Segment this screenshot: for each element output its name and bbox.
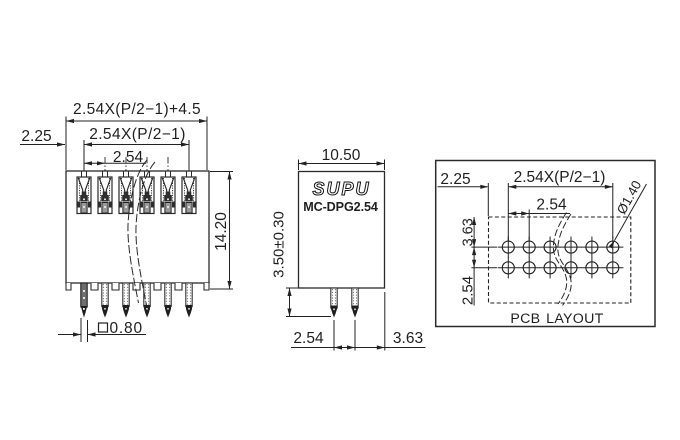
centerline pin 3 [125, 157, 127, 283]
dimension 2.54 (pcb vertical) [460, 276, 477, 305]
dimension 2.54X(P/2-1)+4.5 [66, 101, 207, 170]
slot 3 [119, 171, 133, 213]
connector body outline [66, 171, 209, 283]
svg-text:2.54: 2.54 [536, 197, 567, 214]
hole C3R2 [540, 257, 561, 278]
pcb dashed outline [489, 217, 631, 303]
svg-text:0.80: 0.80 [110, 320, 143, 337]
body foot between pins 2-3 [112, 283, 119, 290]
pin 1 solder tail (sectioned) [81, 283, 87, 318]
dimension 2.25 (left) [20, 128, 65, 147]
pin 3 solder tail [123, 283, 129, 318]
dimension 2.54 (pitch) [84, 149, 146, 166]
svg-text:3.63: 3.63 [393, 330, 423, 347]
hole C1R1 [498, 237, 519, 258]
svg-text:2.54X(P/2−1)+4.5: 2.54X(P/2−1)+4.5 [73, 101, 201, 118]
leader diameter 1.40 [609, 178, 647, 249]
hole C5R2 [581, 257, 602, 278]
hole C4R2 [560, 257, 581, 278]
dimension 2.25 (pcb) [438, 171, 489, 216]
hole C2R2 [519, 257, 540, 278]
pin 2 solder tail [102, 283, 108, 318]
hole C1R2 [498, 257, 519, 278]
body foot between pins 3-4 [133, 283, 140, 290]
svg-text:SUPU: SUPU [312, 179, 370, 199]
slot 5 [161, 171, 175, 213]
body foot between pins 1-2 [91, 283, 98, 290]
hole C6R2 [602, 257, 623, 278]
pin 4 solder tail [144, 283, 150, 318]
side pin 1 [331, 288, 337, 318]
hole C4R1 [560, 237, 581, 258]
svg-text:2.25: 2.25 [21, 128, 51, 145]
dimension 3.63 (pcb vertical) [460, 217, 476, 306]
centerline pin 1 [83, 140, 85, 283]
slot 2 [98, 171, 112, 213]
dimension 10.50 [299, 147, 385, 170]
dimension square 0.80 [58, 318, 146, 342]
pcb panel frame [436, 161, 655, 327]
break line curve pcb [553, 213, 571, 306]
svg-text:3.50±0.30: 3.50±0.30 [271, 211, 288, 278]
centerline pin 4 [146, 157, 148, 283]
row line extensions left [471, 246, 497, 248]
pin 6 solder tail [186, 283, 192, 318]
dimension 2.54X(P/2-1) [84, 126, 189, 170]
break line curve front view [128, 160, 155, 305]
svg-text:2.54X(P/2−1): 2.54X(P/2−1) [89, 126, 186, 143]
dimension 2.54 / 3.63 bottom [291, 292, 426, 351]
centerline pin 6 [188, 140, 190, 283]
svg-text:2.54: 2.54 [460, 276, 477, 305]
dimension 2.54X(P/2-1) (pcb) [508, 169, 613, 241]
body foot between pins 5-6 [175, 283, 182, 290]
dimension 3.50±0.30 [271, 211, 332, 316]
dimension 14.20 (right) [210, 172, 233, 290]
slot 6 [182, 171, 196, 213]
svg-text:PCB LAYOUT: PCB LAYOUT [510, 311, 603, 327]
hole C3R1 [540, 237, 561, 258]
body foot right corner [204, 283, 209, 290]
slot 1 [77, 171, 91, 213]
pin 5 solder tail [165, 283, 171, 318]
hole C5R1 [581, 237, 602, 258]
svg-text:2.54: 2.54 [293, 330, 324, 347]
side pin 2 [352, 288, 358, 318]
slot 4 [140, 171, 154, 213]
dimension 2.54 (pcb) [508, 197, 570, 242]
svg-text:10.50: 10.50 [322, 147, 361, 164]
centerline pin 5 [167, 157, 169, 283]
svg-text:2.54X(P/2−1): 2.54X(P/2−1) [514, 169, 606, 186]
svg-text:14.20: 14.20 [213, 212, 230, 251]
centerline pin 2 [104, 157, 106, 283]
hole C2R1 [519, 237, 540, 258]
svg-text:MC-DPG2.54: MC-DPG2.54 [303, 200, 378, 214]
svg-text:2.25: 2.25 [440, 171, 470, 188]
body foot left corner [66, 283, 71, 290]
side body outline [299, 172, 385, 289]
hole C6R1 [602, 237, 623, 258]
body foot between pins 4-5 [154, 283, 161, 290]
